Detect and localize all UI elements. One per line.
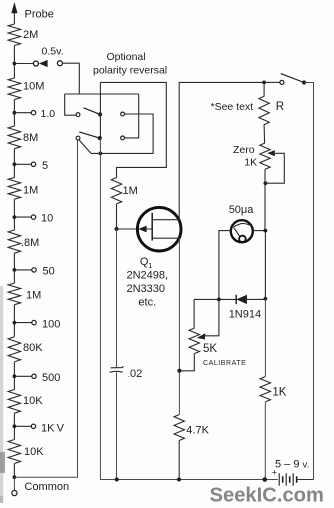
probe input arrow bbox=[11, 2, 17, 24]
transistor Q1 drain bar bbox=[152, 219, 179, 221]
label 10K upper bbox=[23, 395, 43, 407]
label Q1 bbox=[140, 256, 152, 270]
wire DPDT bus to common rail B bbox=[100, 138, 277, 479]
node R top junction bbox=[262, 81, 266, 85]
node 0.5v junction dot bbox=[13, 62, 17, 66]
resistor 1M lower bbox=[8, 283, 20, 305]
svg-text:10: 10 bbox=[41, 213, 53, 225]
node 1K rail junction bbox=[263, 477, 268, 482]
terminal 1.0 bbox=[31, 111, 35, 115]
wire DPDT center bus bbox=[99, 82, 101, 138]
label .8M bbox=[21, 237, 39, 249]
svg-text:+: + bbox=[272, 468, 277, 478]
label 1M lower bbox=[26, 290, 41, 302]
wire common terminal stub bbox=[13, 477, 15, 490]
resistor 80K bbox=[8, 337, 20, 362]
wire tap 10 bbox=[14, 216, 31, 218]
svg-text:1K: 1K bbox=[244, 157, 257, 169]
terminal 50 bbox=[32, 268, 36, 272]
switch S2 pivot dot bbox=[302, 80, 306, 84]
wire cap to common rail bbox=[116, 372, 118, 479]
resistor 8M bbox=[8, 126, 20, 149]
svg-text:Optional: Optional bbox=[107, 51, 146, 63]
terminal 5 bbox=[31, 162, 35, 166]
svg-text:1N914: 1N914 bbox=[229, 309, 261, 321]
node tap 10 bbox=[13, 215, 17, 219]
svg-text:100: 100 bbox=[42, 319, 60, 331]
resistor 10K lower bbox=[8, 440, 20, 464]
wire chain seg6 bbox=[13, 305, 15, 337]
calibrate wiper arrow bbox=[197, 333, 206, 339]
wire chain to common bbox=[13, 464, 15, 478]
wire pole1 feed box bbox=[65, 94, 76, 115]
wire R junction to switch bbox=[264, 81, 280, 83]
node tap 1KV bbox=[13, 424, 17, 428]
wire zero wiper loop bbox=[265, 153, 284, 183]
label Zero bbox=[233, 144, 255, 156]
jack terminal circle right bbox=[57, 61, 62, 66]
wire chain seg8 bbox=[13, 413, 15, 439]
label 1.0 bbox=[41, 108, 56, 120]
label 1M upper bbox=[23, 185, 38, 197]
node tap 1.0 bbox=[13, 111, 17, 115]
label 1K zero bbox=[244, 157, 257, 169]
svg-text:5 – 9 v.: 5 – 9 v. bbox=[275, 459, 309, 471]
label 100 bbox=[42, 319, 60, 331]
node common junction bbox=[13, 475, 17, 479]
switch S1b arm bbox=[79, 132, 99, 138]
wire tap 5 bbox=[14, 163, 31, 165]
svg-text:.8M: .8M bbox=[21, 237, 39, 249]
label 1K right bbox=[272, 387, 286, 399]
terminal 100 bbox=[32, 320, 36, 324]
switch S2 contact circle bbox=[280, 80, 284, 84]
label 4.7K bbox=[186, 425, 209, 437]
label 5-9v bbox=[275, 459, 309, 471]
switch S1b pole contact bbox=[76, 136, 80, 140]
label 500 bbox=[42, 372, 60, 384]
node 4.7K rail junction bbox=[177, 478, 181, 482]
node diode row left junction bbox=[217, 298, 221, 302]
gate arrow bbox=[138, 226, 146, 233]
wire chain seg2 bbox=[13, 100, 15, 127]
wire tap 50 bbox=[14, 269, 31, 271]
wire switch input bus bbox=[65, 93, 139, 95]
label 80K bbox=[23, 342, 43, 354]
wire battery to right rail bbox=[297, 479, 314, 481]
resistor .8M bbox=[8, 230, 20, 253]
svg-text:1.0: 1.0 bbox=[41, 108, 56, 120]
label 2N2498 bbox=[127, 270, 169, 282]
svg-text:2N2498,: 2N2498, bbox=[127, 270, 169, 282]
transistor Q1 gate bar bbox=[151, 213, 153, 241]
transistor Q1 body circle bbox=[137, 207, 181, 251]
wire switch to right rail bbox=[304, 83, 313, 480]
node tap 5 bbox=[13, 162, 17, 166]
wire pole2 diagonal bbox=[79, 140, 91, 153]
label 5K bbox=[203, 343, 217, 355]
capacitor .02 top plate bbox=[111, 366, 124, 368]
resistor R bbox=[259, 82, 269, 143]
wire diode row to 5K bbox=[193, 299, 195, 328]
wire drain riser bbox=[179, 82, 264, 219]
svg-text:R: R bbox=[276, 101, 284, 113]
switch S1a throw dot bbox=[98, 112, 102, 116]
label 2N3330 bbox=[127, 283, 166, 295]
wire chain seg5 bbox=[13, 253, 15, 283]
svg-text:1M: 1M bbox=[26, 290, 41, 302]
label CALIBRATE bbox=[203, 360, 246, 367]
wire throw cross-connect bbox=[91, 114, 153, 153]
zero pot wiper arrow bbox=[267, 150, 275, 156]
meter scale arc bbox=[233, 223, 249, 227]
terminal Common bbox=[12, 491, 17, 496]
resistor 10M bbox=[8, 78, 20, 100]
svg-text:0.5v.: 0.5v. bbox=[42, 46, 64, 58]
svg-text:10K: 10K bbox=[23, 395, 43, 407]
wire zero pot down to meter rail bbox=[264, 169, 266, 230]
resistor 4.7K bbox=[174, 415, 184, 441]
wire gate lead bbox=[117, 228, 153, 230]
node cross junction bbox=[99, 152, 103, 156]
svg-text:80K: 80K bbox=[23, 342, 43, 354]
label 0.5v. bbox=[42, 46, 64, 58]
label 2M bbox=[23, 29, 38, 41]
switch S1b throw dot bbox=[98, 136, 102, 140]
svg-text:2M: 2M bbox=[23, 29, 38, 41]
watermark SeekIC.com bbox=[210, 485, 324, 507]
svg-text:Common: Common bbox=[25, 481, 70, 493]
svg-text:1M: 1M bbox=[23, 185, 38, 197]
wire 0.5v tap bbox=[14, 63, 33, 65]
potentiometer 5K bbox=[189, 328, 199, 353]
meter needle bbox=[234, 228, 241, 237]
node tap 50 bbox=[13, 268, 17, 272]
label *See text bbox=[211, 101, 254, 113]
wire tap 500 bbox=[14, 375, 31, 377]
svg-text:10M: 10M bbox=[23, 81, 44, 93]
meter pivot circle bbox=[239, 236, 246, 243]
label R bbox=[276, 101, 284, 113]
wire meter right lead bbox=[253, 230, 266, 232]
resistor 1K bbox=[260, 377, 270, 402]
terminal 10 bbox=[31, 215, 35, 219]
label 10K lower bbox=[24, 446, 44, 458]
wire meter node to wiper bbox=[205, 299, 219, 335]
node meter right junction bbox=[264, 229, 268, 233]
wire common rail A bbox=[14, 140, 77, 477]
label .02 bbox=[128, 368, 143, 380]
switch S1b other throw bbox=[121, 136, 125, 140]
svg-text:4.7K: 4.7K bbox=[186, 425, 209, 437]
svg-text:Zero: Zero bbox=[233, 144, 255, 156]
svg-text:Probe: Probe bbox=[25, 8, 54, 20]
svg-text:polarity reversal: polarity reversal bbox=[93, 65, 167, 77]
wire diode row bbox=[194, 298, 265, 300]
diode 1N914 bar bbox=[235, 295, 237, 304]
label battery plus bbox=[272, 468, 277, 478]
jack terminal circle left bbox=[33, 61, 38, 66]
svg-text:*See text: *See text bbox=[211, 101, 254, 113]
svg-text:50: 50 bbox=[43, 266, 55, 278]
label 10M bbox=[23, 81, 44, 93]
label 1KV bbox=[41, 423, 65, 435]
label 50 bbox=[43, 266, 55, 278]
wire chain seg7 bbox=[13, 362, 15, 390]
svg-text:.02: .02 bbox=[128, 368, 143, 380]
wire rail diode to 1K bbox=[264, 299, 266, 377]
wire chain seg1 bbox=[13, 46, 15, 79]
wire tap 1KV bbox=[14, 425, 31, 427]
switch S2 arm bbox=[281, 74, 304, 83]
node cap common junction bbox=[115, 478, 119, 482]
wire tap 100 bbox=[14, 322, 31, 324]
resistor 1M upper bbox=[8, 178, 20, 200]
label 8M bbox=[23, 132, 38, 144]
wire DPDT top rail to gate bbox=[100, 82, 166, 177]
wire rail meter to diode bbox=[264, 231, 266, 299]
svg-text:5K: 5K bbox=[203, 343, 217, 355]
diode 1N914 triangle bbox=[236, 295, 247, 304]
svg-text:5: 5 bbox=[42, 160, 48, 172]
node gate junction bbox=[115, 227, 119, 231]
node source junction bbox=[177, 369, 181, 373]
svg-text:etc.: etc. bbox=[138, 297, 156, 309]
meter M1 body bbox=[231, 220, 253, 242]
label Common bbox=[25, 481, 70, 493]
svg-text:10K: 10K bbox=[24, 446, 44, 458]
svg-text:50μa: 50μa bbox=[229, 204, 255, 216]
svg-text:500: 500 bbox=[42, 372, 60, 384]
svg-text:1K: 1K bbox=[272, 387, 286, 399]
scan artifact left edge band bbox=[0, 286, 5, 503]
label 1M gate bbox=[123, 185, 138, 197]
node tap 100 bbox=[13, 321, 17, 325]
svg-text:CALIBRATE: CALIBRATE bbox=[203, 360, 246, 367]
wire 1K to rail bbox=[264, 402, 266, 480]
resistor 10K upper bbox=[8, 390, 20, 414]
potentiometer Zero 1K bbox=[260, 143, 270, 169]
svg-text:1K V: 1K V bbox=[41, 423, 65, 435]
wire chain seg3 bbox=[13, 149, 15, 178]
label Optional bbox=[107, 51, 146, 63]
terminal 500 bbox=[32, 374, 36, 378]
wire gate node down to cap bbox=[116, 229, 118, 368]
svg-text:8M: 8M bbox=[23, 132, 38, 144]
wire meter left lead bbox=[219, 231, 231, 300]
terminal 1KV bbox=[31, 424, 35, 428]
wire 1M to gate node bbox=[116, 204, 118, 229]
svg-text:SeekIC.com: SeekIC.com bbox=[210, 485, 324, 507]
wire chain seg4 bbox=[13, 199, 15, 230]
wire 4.7K to rail bbox=[178, 441, 180, 480]
resistor 2M bbox=[8, 24, 20, 46]
label 10 bbox=[41, 213, 53, 225]
node diode row right junction bbox=[264, 297, 268, 301]
wire throw to input bus bbox=[125, 94, 139, 138]
capacitor .02 bottom plate bbox=[110, 371, 123, 372]
switch S1a arm bbox=[84, 108, 101, 115]
plug arrow 0.5v bbox=[39, 60, 48, 67]
wire source drop bbox=[178, 238, 180, 414]
transistor Q1 source bar bbox=[152, 237, 179, 239]
svg-text:1M: 1M bbox=[123, 185, 138, 197]
label polarity reversal bbox=[93, 65, 167, 77]
label 5 bbox=[42, 160, 48, 172]
resistor 1M gate bbox=[111, 178, 121, 204]
wire 0.5v feed to switch bbox=[62, 63, 79, 94]
label etc. bbox=[138, 297, 156, 309]
node zero loop junction bbox=[264, 181, 268, 185]
label 50ua bbox=[229, 204, 255, 216]
battery B1 5-9v bbox=[279, 473, 297, 485]
node tap 500 bbox=[13, 374, 17, 378]
wire 5K bottom to source bbox=[179, 354, 194, 371]
wire tap 1.0 bbox=[14, 112, 31, 114]
switch S1a pole contact bbox=[76, 113, 80, 117]
label 1N914 bbox=[229, 309, 261, 321]
svg-text:2N3330: 2N3330 bbox=[127, 283, 166, 295]
label Probe bbox=[25, 8, 54, 20]
switch S1a other throw bbox=[121, 112, 125, 116]
